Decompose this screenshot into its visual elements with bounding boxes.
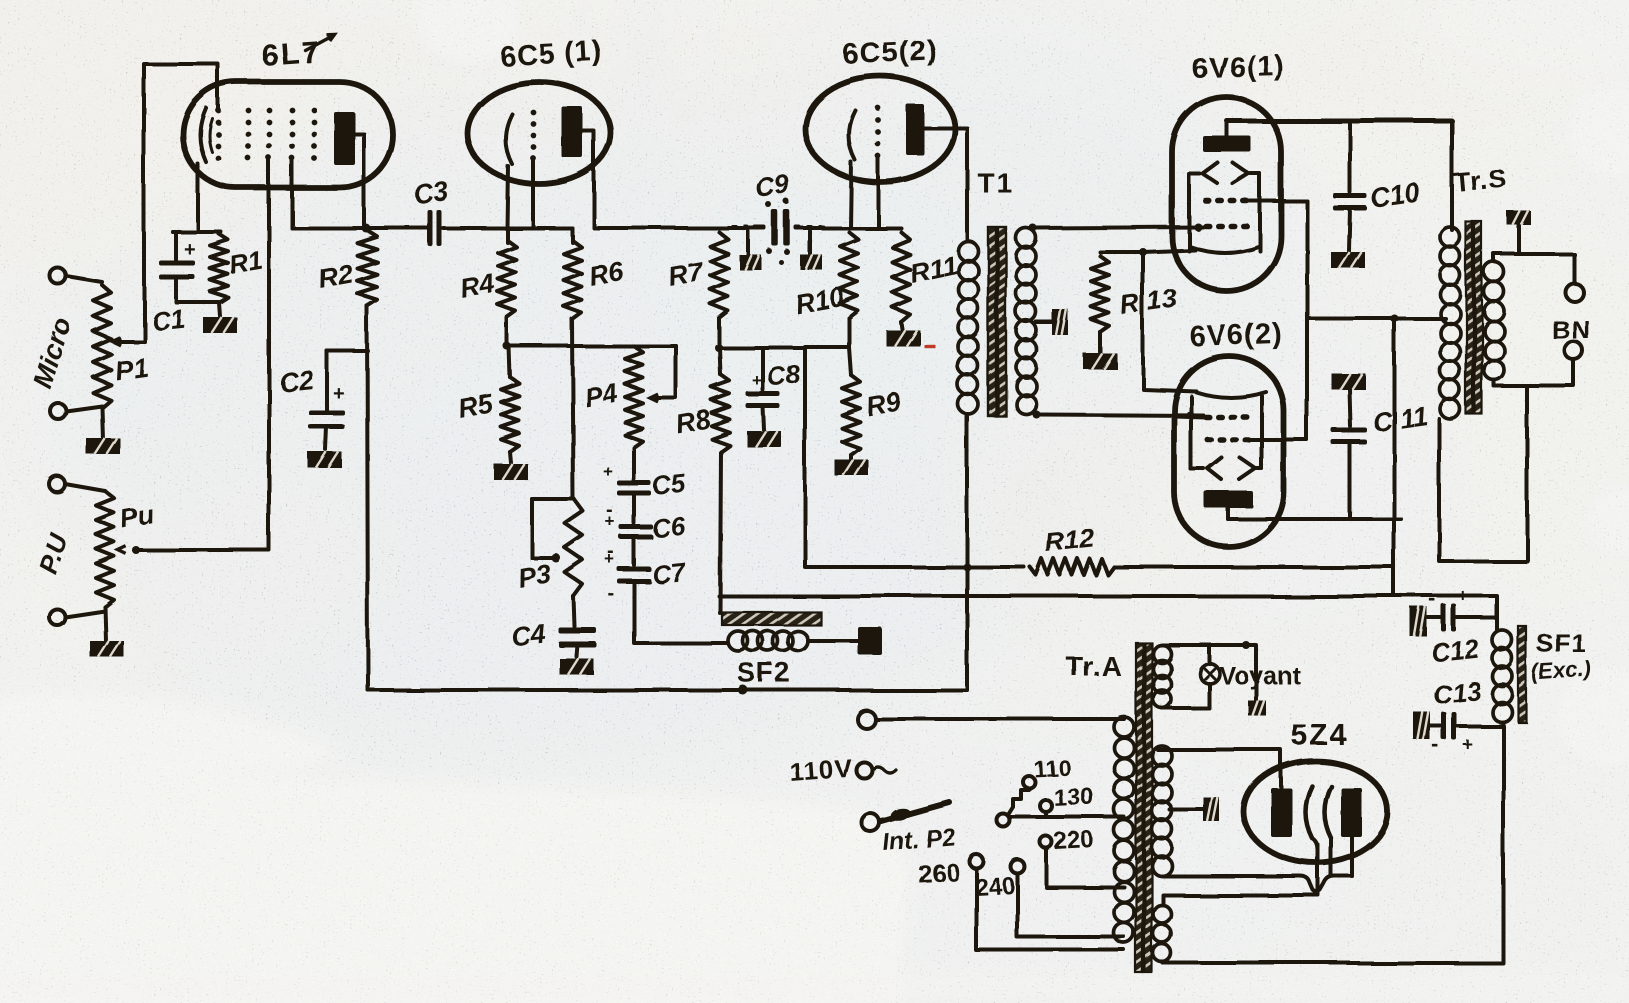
svg-text:R5: R5 — [456, 388, 496, 424]
svg-text:Voyant: Voyant — [1219, 662, 1301, 690]
svg-text:C12: C12 — [1429, 633, 1480, 668]
svg-text:+: + — [605, 550, 615, 569]
svg-text:R1: R1 — [227, 245, 265, 280]
svg-text:6V6(1): 6V6(1) — [1191, 50, 1285, 85]
svg-text:C3: C3 — [413, 176, 451, 211]
svg-text:260: 260 — [917, 858, 960, 888]
svg-text:R4: R4 — [458, 268, 497, 304]
svg-text:C9: C9 — [754, 169, 792, 204]
svg-text:+: + — [333, 383, 345, 405]
svg-text:130: 130 — [1053, 783, 1094, 812]
svg-text:R6: R6 — [586, 255, 626, 291]
svg-text:P4: P4 — [582, 378, 620, 413]
svg-text:Tr.A: Tr.A — [1066, 651, 1123, 682]
svg-text:+: + — [184, 239, 196, 261]
svg-text:C1: C1 — [149, 303, 185, 336]
svg-text:P1: P1 — [113, 352, 150, 386]
svg-text:6V6(2): 6V6(2) — [1189, 318, 1283, 353]
svg-text:+: + — [1462, 734, 1473, 754]
svg-text:110V: 110V — [788, 753, 853, 787]
svg-text:6C5 (1): 6C5 (1) — [499, 36, 604, 73]
svg-text:6C5(2): 6C5(2) — [842, 34, 938, 71]
svg-text:C2: C2 — [277, 365, 314, 398]
svg-text:P3: P3 — [516, 559, 554, 594]
svg-text:-: - — [1429, 586, 1436, 611]
svg-text:C6: C6 — [650, 511, 687, 544]
svg-text:T1: T1 — [977, 167, 1014, 198]
svg-text:+: + — [752, 371, 762, 390]
svg-text:-: - — [1432, 732, 1439, 757]
svg-text:Tr.S: Tr.S — [1453, 163, 1509, 198]
svg-text:C13: C13 — [1431, 675, 1482, 710]
svg-text:+: + — [1458, 586, 1469, 606]
svg-text:SF2: SF2 — [737, 657, 791, 688]
svg-text:C8: C8 — [765, 359, 802, 392]
svg-text:6L7: 6L7 — [260, 34, 322, 73]
svg-text:C7: C7 — [650, 556, 688, 589]
svg-text:C5: C5 — [650, 468, 687, 501]
svg-text:(Exc.): (Exc.) — [1531, 656, 1593, 685]
svg-text:R2: R2 — [316, 258, 355, 294]
svg-text:C4: C4 — [509, 619, 546, 652]
svg-text:240: 240 — [974, 872, 1015, 901]
svg-text:110: 110 — [1033, 754, 1071, 782]
svg-text:Pu: Pu — [118, 499, 156, 534]
svg-text:SF1: SF1 — [1536, 628, 1587, 658]
svg-text:-: - — [608, 583, 615, 605]
svg-text:+: + — [603, 462, 613, 481]
svg-text:R12: R12 — [1043, 523, 1095, 558]
svg-text:R8: R8 — [674, 404, 713, 440]
svg-text:R9: R9 — [864, 386, 903, 422]
svg-text:BN: BN — [1552, 315, 1592, 345]
svg-text:5Z4: 5Z4 — [1291, 719, 1349, 752]
svg-text:220: 220 — [1053, 826, 1094, 855]
svg-text:+: + — [605, 512, 615, 531]
